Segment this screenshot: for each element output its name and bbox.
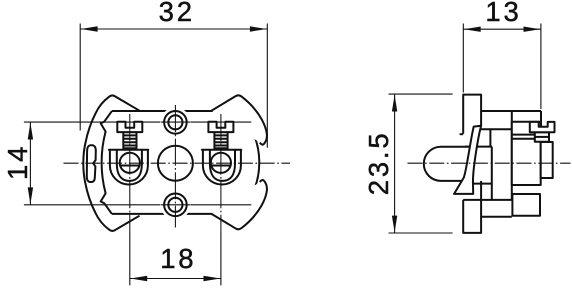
node body left edge with zigzag steps bbox=[101, 111, 112, 214]
wire body edge step behind screw slot bbox=[540, 111, 542, 127]
node left outer wing contour (ear top-left, crescent, wing bottom-left) bbox=[83, 95, 139, 231]
wire body top edge bbox=[112, 110, 239, 112]
wire housing right edge bbox=[511, 111, 513, 200]
node retaining clip spring bbox=[454, 126, 481, 194]
wire housing seam bottom bbox=[463, 199, 512, 201]
node dim 18 arrow right bbox=[204, 276, 221, 281]
wire housing seam upper bbox=[481, 128, 512, 130]
node bottom mounting hole inner bbox=[168, 198, 182, 212]
node center lamp hole bbox=[158, 146, 193, 181]
node left crescent slot with middle notch bbox=[87, 145, 96, 182]
node bottom mounting hole white knockout bbox=[160, 190, 190, 220]
node wing bottom-right bbox=[212, 180, 267, 229]
node lamp bulb dome bbox=[424, 147, 471, 181]
wire housing lower block bottom bbox=[481, 216, 512, 218]
node body right edge arc bbox=[239, 111, 259, 214]
node screw right shank bbox=[214, 132, 227, 148]
node terminal bracket right U-shape bbox=[202, 150, 241, 185]
wire extension line right screw (dim 18) bbox=[220, 232, 222, 285]
wire extension line left screw (dim 18) bbox=[129, 232, 131, 285]
wire screw right centerline bbox=[220, 114, 222, 232]
wire dim 32 extension right bbox=[266, 24, 268, 148]
wire screw left threads bbox=[123, 135, 136, 145]
wire hole center extension line top (dim 14) bbox=[24, 121, 251, 123]
wire dim 18 line bbox=[130, 278, 221, 280]
wire horizontal centerline side view bbox=[408, 162, 571, 164]
wire dim 14 line bbox=[29, 122, 31, 205]
wire dim 32 extension left bbox=[79, 24, 81, 131]
wire dim 23.5 extension bottom bbox=[389, 232, 453, 234]
wire socket boss seam lines bbox=[512, 135, 535, 139]
node bottom mounting hole outer bbox=[164, 194, 187, 217]
wire dim 13 extension right bbox=[540, 24, 542, 110]
wire hole center extension line bottom (dim 14) bbox=[24, 204, 251, 206]
node screw right head with slot bbox=[208, 122, 233, 132]
wire bulb base seam line bbox=[465, 146, 492, 148]
wire screw left centerline bbox=[129, 114, 131, 232]
node terminal hole left bbox=[120, 153, 140, 173]
node socket block bbox=[512, 122, 541, 185]
node side screw shank bbox=[535, 132, 549, 142]
node dim 13 arrow left bbox=[464, 27, 481, 32]
node terminal bracket left inner line bbox=[117, 150, 142, 181]
node side right tab bbox=[541, 142, 553, 178]
svg-text:14: 14 bbox=[2, 144, 33, 180]
wire screw tip chord right bbox=[211, 165, 230, 167]
node screw left head with slot bbox=[117, 122, 142, 132]
node dim 32 arrow right bbox=[250, 26, 267, 31]
node dim 14 arrow bottom bbox=[28, 187, 33, 204]
node screw left shank bbox=[123, 132, 136, 148]
wire horizontal centerline front view bbox=[64, 162, 291, 164]
wire screw right threads bbox=[214, 135, 227, 145]
wire housing inner vertical upper bbox=[489, 129, 491, 146]
wire body bottom edge bbox=[112, 213, 239, 215]
wire dim 23.5 line bbox=[394, 94, 396, 233]
svg-text:23.5: 23.5 bbox=[363, 131, 394, 196]
wire screw tip chord left bbox=[120, 165, 139, 167]
wire housing seam mid bbox=[473, 183, 492, 185]
node side screw head with slot bbox=[530, 122, 555, 132]
node top mounting hole inner bbox=[168, 115, 182, 129]
wire centerline cross top hole bbox=[161, 121, 190, 123]
wire dim 32 line bbox=[80, 28, 267, 30]
wire housing inner vertical lower bbox=[491, 147, 493, 200]
node dim 32 arrow left bbox=[81, 26, 98, 31]
node terminal hole right bbox=[211, 153, 231, 173]
wire housing top edge bbox=[481, 110, 541, 112]
svg-text:13: 13 bbox=[485, 0, 521, 27]
wire plate notch tick bbox=[460, 133, 464, 135]
node dim 18 arrow left bbox=[130, 276, 147, 281]
svg-text:18: 18 bbox=[160, 243, 196, 274]
node top mounting hole outer bbox=[164, 111, 187, 134]
node dim 14 arrow top bbox=[28, 123, 33, 140]
wire centerline cross bottom hole bbox=[161, 204, 190, 206]
node dim 23.5 arrow bottom bbox=[392, 216, 397, 233]
node mounting plate bottom section bbox=[463, 181, 481, 233]
wire side screw thread bbox=[535, 136, 549, 138]
node terminal bracket left U-shape bbox=[109, 150, 148, 185]
wire dim 13 extension left bbox=[462, 24, 464, 93]
node side bottom block bbox=[512, 194, 540, 216]
node wing top-right bbox=[212, 95, 267, 144]
node top mounting hole white knockout bbox=[160, 107, 190, 137]
wire dim 13 line bbox=[463, 28, 541, 30]
node mounting plate top section bbox=[463, 95, 481, 134]
node terminal bracket right inner line bbox=[210, 150, 235, 181]
wire vertical centerline front view bbox=[174, 105, 176, 228]
wire dim 23.5 extension top bbox=[389, 93, 453, 95]
node dim 13 arrow right bbox=[524, 27, 541, 32]
svg-text:32: 32 bbox=[159, 0, 195, 27]
node dim 23.5 arrow top bbox=[392, 95, 397, 112]
